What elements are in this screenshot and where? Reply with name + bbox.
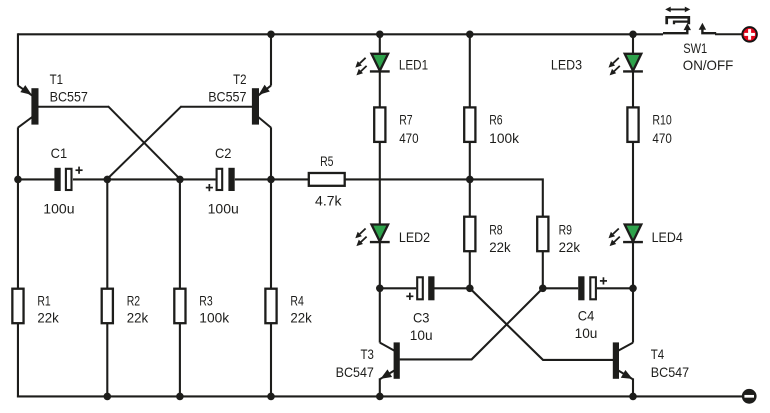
svg-text:BC557: BC557 (208, 90, 246, 105)
label R2 (127, 294, 149, 326)
switch SW1 (663, 7, 742, 35)
svg-text:22k: 22k (37, 311, 59, 326)
svg-text:T4: T4 (651, 347, 665, 362)
svg-text:100k: 100k (489, 131, 519, 146)
label R9 (559, 222, 581, 255)
svg-text:R6: R6 (489, 113, 502, 128)
label C1 (43, 146, 74, 216)
capacitor C4 (578, 276, 607, 300)
label C4 (575, 309, 598, 342)
transistor T2 (107, 85, 271, 180)
wire mid rail C1 to C2 (73, 178, 216, 180)
label C2 (208, 146, 239, 216)
wire T3 collector drop (379, 288, 381, 342)
wire R8 to node (469, 251, 471, 288)
resistor R7 (374, 107, 385, 141)
wire R4 column (270, 179, 272, 288)
wire R3 column (179, 179, 181, 288)
label T4 (651, 347, 689, 380)
node bottom rail T4 (629, 393, 637, 401)
negative supply terminal (742, 389, 757, 404)
wire R2 to bottom rail (106, 323, 108, 396)
svg-text:4.7k: 4.7k (315, 193, 342, 208)
wire cross-couple base T3 (400, 288, 543, 359)
svg-text:BC557: BC557 (50, 90, 88, 105)
LED LED2 (355, 225, 389, 247)
svg-text:10u: 10u (575, 326, 598, 341)
wire LED2 to node (379, 242, 381, 288)
svg-text:R1: R1 (37, 294, 50, 309)
wire R7 to LED2 (379, 143, 381, 226)
label C3 (410, 311, 433, 343)
resistor R5 (309, 173, 345, 186)
label LED3 (551, 58, 582, 73)
LED LED1 (355, 54, 389, 76)
positive supply terminal (742, 27, 757, 42)
svg-text:T1: T1 (50, 72, 63, 87)
wire LED3 to R10 (632, 72, 634, 108)
node mid rail T1 collector (14, 176, 22, 184)
wire R1 to bottom rail (17, 323, 19, 397)
node top rail T2 emitter (267, 31, 275, 39)
label T1 (50, 72, 88, 105)
svg-text:22k: 22k (290, 311, 312, 326)
svg-text:R4: R4 (290, 294, 304, 309)
transistor T4 (613, 342, 633, 379)
label R4 (290, 294, 312, 326)
wire LED3 anode (632, 34, 634, 54)
svg-text:R3: R3 (199, 294, 212, 309)
wire LED1 anode (379, 34, 381, 54)
wire R1 column (17, 179, 19, 288)
node bottom rail R3 (176, 393, 184, 401)
node LED4/C4 (629, 285, 637, 293)
wire T4 collector drop (632, 288, 634, 342)
svg-text:470: 470 (652, 131, 672, 146)
node LED2/C3 (376, 285, 384, 293)
resistor R2 (102, 289, 113, 324)
svg-text:R10: R10 (652, 113, 672, 128)
wire T1 collector to mid rail (17, 127, 19, 179)
wire T2 emitter feed (270, 34, 272, 85)
node mid rail C1/R2 (104, 176, 112, 184)
label R7 (399, 113, 419, 146)
node mid rail R6 (466, 176, 474, 184)
wire top rail (18, 33, 663, 35)
wire C4 right (597, 287, 633, 289)
wire cross-couple base T4 (470, 288, 613, 360)
svg-text:BC547: BC547 (336, 365, 374, 380)
svg-text:470: 470 (399, 131, 419, 146)
wire left column (T1 emitter feed) (17, 33, 19, 85)
svg-text:22k: 22k (559, 240, 581, 255)
node bottom rail R2 (104, 393, 112, 401)
svg-text:C1: C1 (51, 146, 68, 161)
resistor R9 (537, 217, 548, 252)
node top rail LED3 (629, 31, 637, 39)
svg-text:C2: C2 (215, 146, 232, 161)
wire C4 left (543, 287, 578, 289)
svg-text:R2: R2 (127, 294, 140, 309)
resistor R1 (12, 289, 23, 324)
capacitor C2 (206, 168, 235, 191)
label SW1 (683, 41, 734, 73)
wire C3 left (380, 287, 416, 289)
wire bottom rail (17, 395, 742, 397)
svg-text:10u: 10u (410, 328, 433, 343)
label R8 (489, 222, 511, 255)
wire LED4 to node (632, 242, 634, 288)
label R6 (489, 113, 519, 146)
node bottom rail T3 (376, 393, 384, 401)
node mid rail T2 collector (267, 176, 275, 184)
svg-text:LED3: LED3 (551, 58, 582, 73)
wire T4 emitter to bottom rail (632, 378, 634, 396)
wire R6 to mid rail (469, 143, 471, 180)
label LED1 (399, 58, 428, 73)
svg-text:100u: 100u (43, 201, 74, 216)
label R10 (652, 113, 672, 146)
wire mid rail to R8 (469, 179, 471, 216)
label R5 (315, 154, 342, 208)
resistor R8 (464, 217, 475, 252)
svg-text:T3: T3 (361, 347, 374, 362)
node bottom rail R4 (267, 393, 275, 401)
label LED4 (652, 230, 684, 245)
wire R3 to bottom rail (179, 323, 181, 396)
svg-text:BC547: BC547 (651, 365, 689, 380)
wire C3 right (434, 287, 469, 289)
svg-text:100u: 100u (208, 201, 239, 216)
LED LED4 (609, 225, 643, 247)
svg-text:C4: C4 (578, 309, 595, 324)
resistor R6 (464, 107, 475, 141)
wire R9 to node (542, 251, 544, 288)
wire T3 emitter to bottom rail (379, 378, 381, 396)
wire R4 to bottom rail (270, 323, 272, 396)
svg-text:ON/OFF: ON/OFF (683, 58, 734, 73)
capacitor C1 (54, 167, 82, 191)
wire R6 feed (469, 34, 471, 108)
svg-text:22k: 22k (127, 311, 149, 326)
svg-text:R9: R9 (559, 222, 572, 237)
node R9/C4 (539, 285, 547, 293)
svg-text:C3: C3 (413, 311, 430, 326)
wire R2 column (106, 179, 108, 288)
label LED2 (399, 230, 430, 245)
node R8/C3 (466, 285, 474, 293)
resistor R10 (627, 107, 638, 141)
node top rail R6 (466, 31, 474, 39)
label R1 (37, 294, 59, 326)
transistor T3 (380, 342, 400, 379)
svg-text:100k: 100k (199, 311, 229, 326)
wire T2 collector to mid rail (270, 127, 272, 179)
label T2 (208, 72, 246, 105)
resistor R4 (265, 289, 276, 324)
node top rail LED1 (376, 31, 384, 39)
svg-text:R8: R8 (489, 222, 502, 237)
capacitor C3 (406, 276, 434, 300)
label T3 (336, 347, 374, 380)
transistor T1 (18, 85, 180, 179)
wire mid rail left of C1 (17, 178, 54, 180)
svg-text:LED2: LED2 (399, 230, 430, 245)
wire LED1 to R7 (379, 72, 381, 108)
wire R10 to LED4 (632, 143, 634, 226)
svg-text:LED1: LED1 (399, 58, 428, 73)
svg-text:R5: R5 (320, 154, 333, 169)
svg-text:LED4: LED4 (652, 230, 684, 245)
svg-text:22k: 22k (489, 240, 511, 255)
svg-text:R7: R7 (399, 113, 412, 128)
svg-text:T2: T2 (233, 72, 246, 87)
node mid rail C2/R3 (176, 176, 184, 184)
resistor R3 (174, 289, 185, 324)
svg-text:SW1: SW1 (683, 41, 707, 56)
LED LED3 (609, 54, 643, 76)
wire mid rail C2 to R5 (235, 178, 309, 180)
wire mid rail R5 to R9 corner (345, 179, 543, 216)
label R3 (199, 294, 229, 326)
